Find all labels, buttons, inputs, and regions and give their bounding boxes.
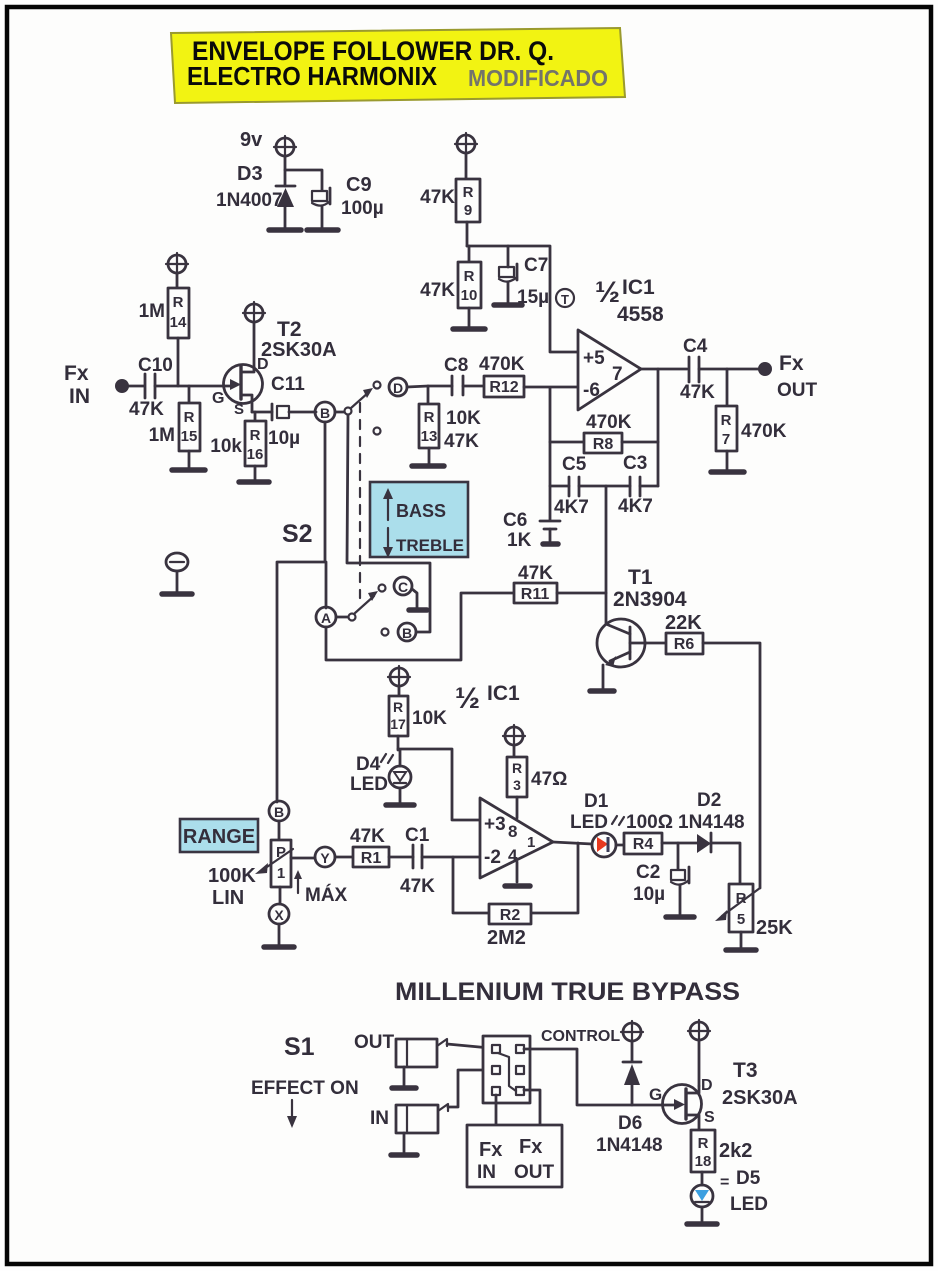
ground D4 [386,802,414,808]
svg-text:R8: R8 [593,436,614,453]
svg-text:17: 17 [390,716,406,732]
svg-text:MODIFICADO: MODIFICADO [468,65,608,91]
node B lower [398,623,416,641]
svg-text:D: D [701,1077,713,1094]
svg-text:R: R [721,412,732,429]
svg-text:MILLENIUM TRUE BYPASS: MILLENIUM TRUE BYPASS [395,978,740,1006]
svg-text:½: ½ [455,682,480,715]
wire junction to node A [325,562,328,608]
svg-text:2N3904: 2N3904 [613,588,687,611]
svg-text:OUT: OUT [514,1162,555,1183]
svg-text:7: 7 [612,364,623,385]
wire A to pole [336,616,348,619]
svg-text:C5: C5 [562,454,587,475]
ground R7 [711,469,744,475]
svg-text:R: R [184,409,195,426]
title banner [171,28,625,103]
svg-text:Fx: Fx [64,362,89,385]
svg-text:+5: +5 [583,348,605,369]
svg-text:Y: Y [320,850,330,866]
wire R17 junction to noninverting input [398,749,480,820]
svg-text:1: 1 [527,834,535,851]
svg-text:RANGE: RANGE [183,826,255,848]
svg-text:R6: R6 [674,636,695,653]
ground C9 [307,227,338,233]
resistor R8 [550,433,658,453]
label MAX with arrow [294,870,348,906]
resistor R2 [489,904,531,924]
svg-text:X: X [274,907,284,923]
power symbol T2 [243,302,265,324]
capacitor C1 [413,845,422,868]
svg-text:T: T [561,292,569,307]
svg-text:10K: 10K [412,708,447,729]
wire rail to +input column [467,246,578,352]
ground T1 emitter [590,688,614,694]
dashed gang line S2 [359,403,361,598]
svg-text:16: 16 [247,446,264,463]
svg-text:22K: 22K [665,612,702,634]
svg-text:B: B [274,804,284,820]
power symbol R17 [388,666,410,688]
wire pole down to lower section [347,415,430,632]
power symbol R14 [166,253,188,275]
svg-text:470K: 470K [586,412,632,433]
svg-text:MÁX: MÁX [305,884,348,906]
ground R15 [172,467,205,473]
svg-text:R11: R11 [521,586,550,603]
svg-text:LED: LED [350,774,388,795]
svg-text:25K: 25K [756,917,793,939]
switch S2 throw C contact [379,585,386,592]
svg-text:2M2: 2M2 [487,927,526,949]
node T [556,289,574,307]
resistor R17 [389,686,408,750]
switch S2 throw D contact [374,382,381,389]
svg-text:5: 5 [737,911,745,928]
svg-text:47K: 47K [420,280,455,301]
svg-text:47K: 47K [444,431,479,452]
resistor R7 [716,369,737,470]
node minus terminal [166,553,188,592]
svg-text:R2: R2 [500,907,521,924]
svg-text:LED: LED [730,1194,768,1215]
svg-text:10µ: 10µ [633,884,665,905]
svg-text:C: C [398,579,408,595]
svg-text:2k2: 2k2 [719,1140,752,1162]
resistor R9 [456,179,480,222]
svg-text:TREBLE: TREBLE [396,536,464,555]
resistor R14 [168,288,189,386]
svg-text:47Ω: 47Ω [531,769,567,790]
wire D2 to R5 [711,843,740,884]
svg-text:Fx: Fx [519,1136,542,1158]
svg-text:C3: C3 [623,453,647,474]
wire node C to ground [412,589,417,608]
svg-text:G: G [212,390,224,407]
svg-text:-6: -6 [583,380,600,401]
capacitor C10 [145,374,155,398]
svg-text:D2: D2 [697,790,721,811]
wire Y to R1 [335,856,353,859]
diode D5 LED [691,1185,713,1221]
resistor R10 [458,246,481,327]
wire C10 to gate [155,385,224,388]
svg-text:18: 18 [695,1153,712,1170]
power symbol R9 rail [455,133,477,155]
wire C4 to output terminal [699,368,764,371]
ground R10 [453,326,485,332]
svg-text:C2: C2 [636,862,660,883]
svg-text:10µ: 10µ [268,428,300,449]
capacitor C6 with ground [540,521,560,544]
power symbol R3 [503,725,525,747]
capacitor C8 [452,376,463,395]
capacitor C11 [272,404,316,420]
switch S2 arm upper [351,388,373,408]
svg-text:D5: D5 [736,1168,761,1189]
svg-text:13: 13 [421,428,438,445]
svg-text:OUT: OUT [354,1032,395,1053]
wire OUT jack to switch [447,1044,490,1048]
node B [315,402,335,422]
transistor T1 [597,619,646,689]
wire control to gate [524,1049,663,1105]
wire R6 to R5 wiper [703,643,760,888]
diode D3 [276,170,295,228]
svg-text:T1: T1 [628,566,653,589]
svg-text:R: R [250,427,261,444]
resistor R15 [179,386,200,468]
node Fx IN terminal [115,379,129,393]
wire R1 to C1 [389,856,413,859]
switch S1 DPDT box [483,1036,530,1103]
wire switch to Fx IN [495,1095,498,1125]
svg-text:C11: C11 [271,374,305,395]
node B range [269,801,289,821]
svg-text:1N4007: 1N4007 [216,190,283,211]
svg-text:9: 9 [464,202,472,219]
svg-text:47K: 47K [350,826,385,847]
ground C2 [666,914,694,920]
wire opamp2 pin4 ground [516,862,519,882]
tick marks D1 [612,816,624,825]
svg-text:R: R [173,294,184,311]
diode D2 [697,833,711,853]
ground D3 [269,227,301,233]
wire power to R14 [176,273,179,288]
wire R9 to rail junction [466,222,469,246]
node X [269,904,289,924]
wire opamp output [641,368,687,371]
resistor R6 [666,633,703,654]
arrow effect on [287,1100,297,1128]
switch S2 pole upper [345,408,352,415]
wire source to C11 [252,411,272,414]
switch S2 arm lower [355,591,378,613]
svg-text:C8: C8 [444,355,468,376]
svg-text:47K: 47K [680,382,715,403]
ground C7 [494,302,522,308]
wire supply to D3/C9 junction [285,156,322,190]
resistor R13 [419,386,439,464]
resistor R11 [514,583,557,603]
svg-text:S: S [234,401,244,418]
wire input to C10 [129,385,144,388]
svg-text:8: 8 [508,822,517,841]
svg-text:1N4148: 1N4148 [596,1135,663,1156]
svg-text:C7: C7 [524,255,548,276]
svg-text:10K: 10K [446,408,481,429]
ground X [264,944,294,950]
svg-text:100K: 100K [208,865,256,887]
box Fx IN OUT [467,1125,562,1187]
svg-text:S2: S2 [282,520,313,548]
svg-text:CONTROL: CONTROL [541,1028,620,1045]
svg-text:T2: T2 [277,318,302,341]
svg-text:10: 10 [461,287,478,304]
svg-text:R: R [393,699,403,715]
svg-text:7: 7 [722,431,730,448]
potentiometer P1 [255,840,293,887]
svg-text:4558: 4558 [617,303,664,326]
transistor T3 [663,1085,702,1131]
ground OUT jack [392,1085,416,1091]
svg-text:EFFECT ON: EFFECT ON [251,1078,359,1099]
svg-text:4K7: 4K7 [554,497,589,518]
svg-text:D4: D4 [356,754,381,775]
svg-text:Fx: Fx [779,352,804,375]
ground D5 [687,1221,717,1227]
svg-text:100µ: 100µ [341,198,384,219]
resistor R12 [484,376,524,397]
svg-text:2SK30A: 2SK30A [722,1087,798,1109]
svg-text:R: R [698,1135,709,1152]
highlight box BASS TREBLE [370,482,468,558]
wire P1 bottom to X [279,887,282,904]
highlight box RANGE [180,819,258,852]
svg-text:D6: D6 [618,1113,642,1134]
svg-text:470K: 470K [741,421,787,442]
svg-text:R: R [424,409,435,426]
svg-text:IN: IN [69,385,90,408]
svg-text:100Ω: 100Ω [626,812,673,833]
svg-text:1K: 1K [507,530,532,551]
node C [394,577,412,595]
svg-text:IC1: IC1 [487,682,520,705]
svg-text:IN: IN [477,1162,496,1183]
svg-text:C1: C1 [405,825,430,846]
wire power to T2 drain [253,322,256,369]
resistor R4 [624,833,662,854]
svg-text:R: R [512,760,522,776]
wire R2 feedback loop [453,843,578,913]
svg-text:Fx: Fx [479,1139,502,1161]
svg-text:IN: IN [370,1108,389,1129]
switch S2 pole lower [349,614,356,621]
ground R16 [239,479,269,485]
diode D4 LED [389,750,411,803]
svg-text:C10: C10 [138,355,173,376]
capacitor C7 [499,246,517,303]
op-amp U1B IC1 [480,798,553,878]
resistor R18 [691,1130,715,1185]
diode D1 LED [592,833,624,857]
svg-text:D1: D1 [584,791,609,812]
svg-text:4K7: 4K7 [618,496,653,517]
svg-text:ELECTRO HARMONIX: ELECTRO HARMONIX [187,61,438,91]
svg-text:47K: 47K [400,876,435,897]
svg-text:R4: R4 [633,836,654,853]
svg-text:LIN: LIN [212,887,244,909]
ground opamp2 [505,883,530,889]
capacitor C2 [671,843,689,914]
op-amp U1A IC1 [578,330,641,410]
svg-text:BASS: BASS [396,501,446,521]
wire output node down [657,369,660,486]
capacitor C3 [630,477,658,496]
wire R12 to inverting input [524,386,578,389]
svg-text:R: R [463,184,474,201]
diode D6 [623,1041,641,1105]
node Fx OUT terminal [758,362,772,376]
svg-text:IC1: IC1 [622,276,655,299]
svg-text:C9: C9 [346,174,372,196]
wire C8 to R12 [463,385,484,388]
wire node A bottom rail to R11 [326,593,514,660]
wire X to ground [278,924,281,945]
svg-text:-2: -2 [484,847,501,868]
wire T1 base to R6 [646,642,666,645]
node Y [315,847,335,867]
wire IN jack to switch [448,1070,490,1107]
svg-text:470K: 470K [479,354,525,375]
resistor R16 [245,412,266,480]
svg-text:3: 3 [513,777,521,793]
svg-text:=: = [720,1174,729,1191]
transistor T2 [224,365,263,413]
svg-text:OUT: OUT [777,380,818,401]
wire feedback node down [549,388,552,520]
wire node B to pole [335,411,344,414]
svg-text:1M: 1M [139,301,165,322]
svg-text:2SK30A: 2SK30A [261,339,337,361]
svg-text:R12: R12 [489,379,518,396]
node D [389,378,407,396]
wire C1 to inverting input [422,856,480,859]
resistor R1 [353,847,389,867]
svg-text:C6: C6 [503,510,527,531]
svg-text:15: 15 [181,428,198,445]
wire B to P1 [278,821,281,840]
svg-text:R: R [464,268,475,285]
ground minus terminal [162,591,192,597]
jack OUT [396,1039,447,1085]
power symbol T3 [688,1020,710,1042]
svg-text:S: S [704,1109,715,1126]
power +9V supply symbol [274,136,296,158]
node A [316,607,336,627]
ground IN jack [391,1152,417,1158]
svg-text:R1: R1 [361,850,382,867]
jack IN [396,1104,448,1152]
ground R13 [412,463,444,469]
svg-text:47K: 47K [129,399,164,420]
capacitor C4 [689,357,699,382]
wire power to R9 [465,153,468,179]
switch S2 unused contact [374,428,381,435]
switch S2 throw B contact lower [382,629,389,636]
svg-text:B: B [402,625,412,641]
svg-text:C4: C4 [683,336,708,357]
svg-text:47K: 47K [420,187,455,208]
svg-text:10k: 10k [210,436,242,457]
svg-text:D3: D3 [237,163,263,185]
wire power to T3 drain [698,1040,701,1086]
wire switch to Fx OUT [524,1090,540,1125]
tick marks D4 [381,754,393,763]
ground R5 [726,947,756,953]
wire node D to C8 [407,386,452,387]
trimmer R5 [715,884,760,948]
svg-text:LED: LED [570,812,608,833]
svg-text:1N4148: 1N4148 [678,812,745,833]
capacitor C5 [550,477,630,496]
resistor R3 [507,745,527,818]
wire opamp2 output [553,842,592,844]
wire node B down and left to range column [277,422,325,802]
wire R4 to D2 [662,842,697,845]
svg-text:T3: T3 [733,1059,758,1082]
svg-text:9v: 9v [240,129,263,151]
wire R11 to T1 collector column [557,592,606,595]
svg-text:1: 1 [277,865,285,882]
wire C5-C3 junction to T1 collector [605,486,608,624]
svg-text:14: 14 [170,314,187,331]
svg-text:B: B [320,405,330,421]
svg-text:G: G [649,1085,662,1104]
capacitor C9 [312,188,330,228]
ground node C [409,607,427,613]
svg-text:1M: 1M [149,425,175,446]
svg-text:D: D [393,380,403,396]
power symbol D6 [621,1021,643,1043]
svg-text:47K: 47K [518,563,553,584]
wire P1 wiper to Y [291,857,315,860]
svg-text:S1: S1 [284,1033,315,1061]
svg-text:+3: +3 [484,814,506,835]
svg-text:A: A [321,610,331,626]
